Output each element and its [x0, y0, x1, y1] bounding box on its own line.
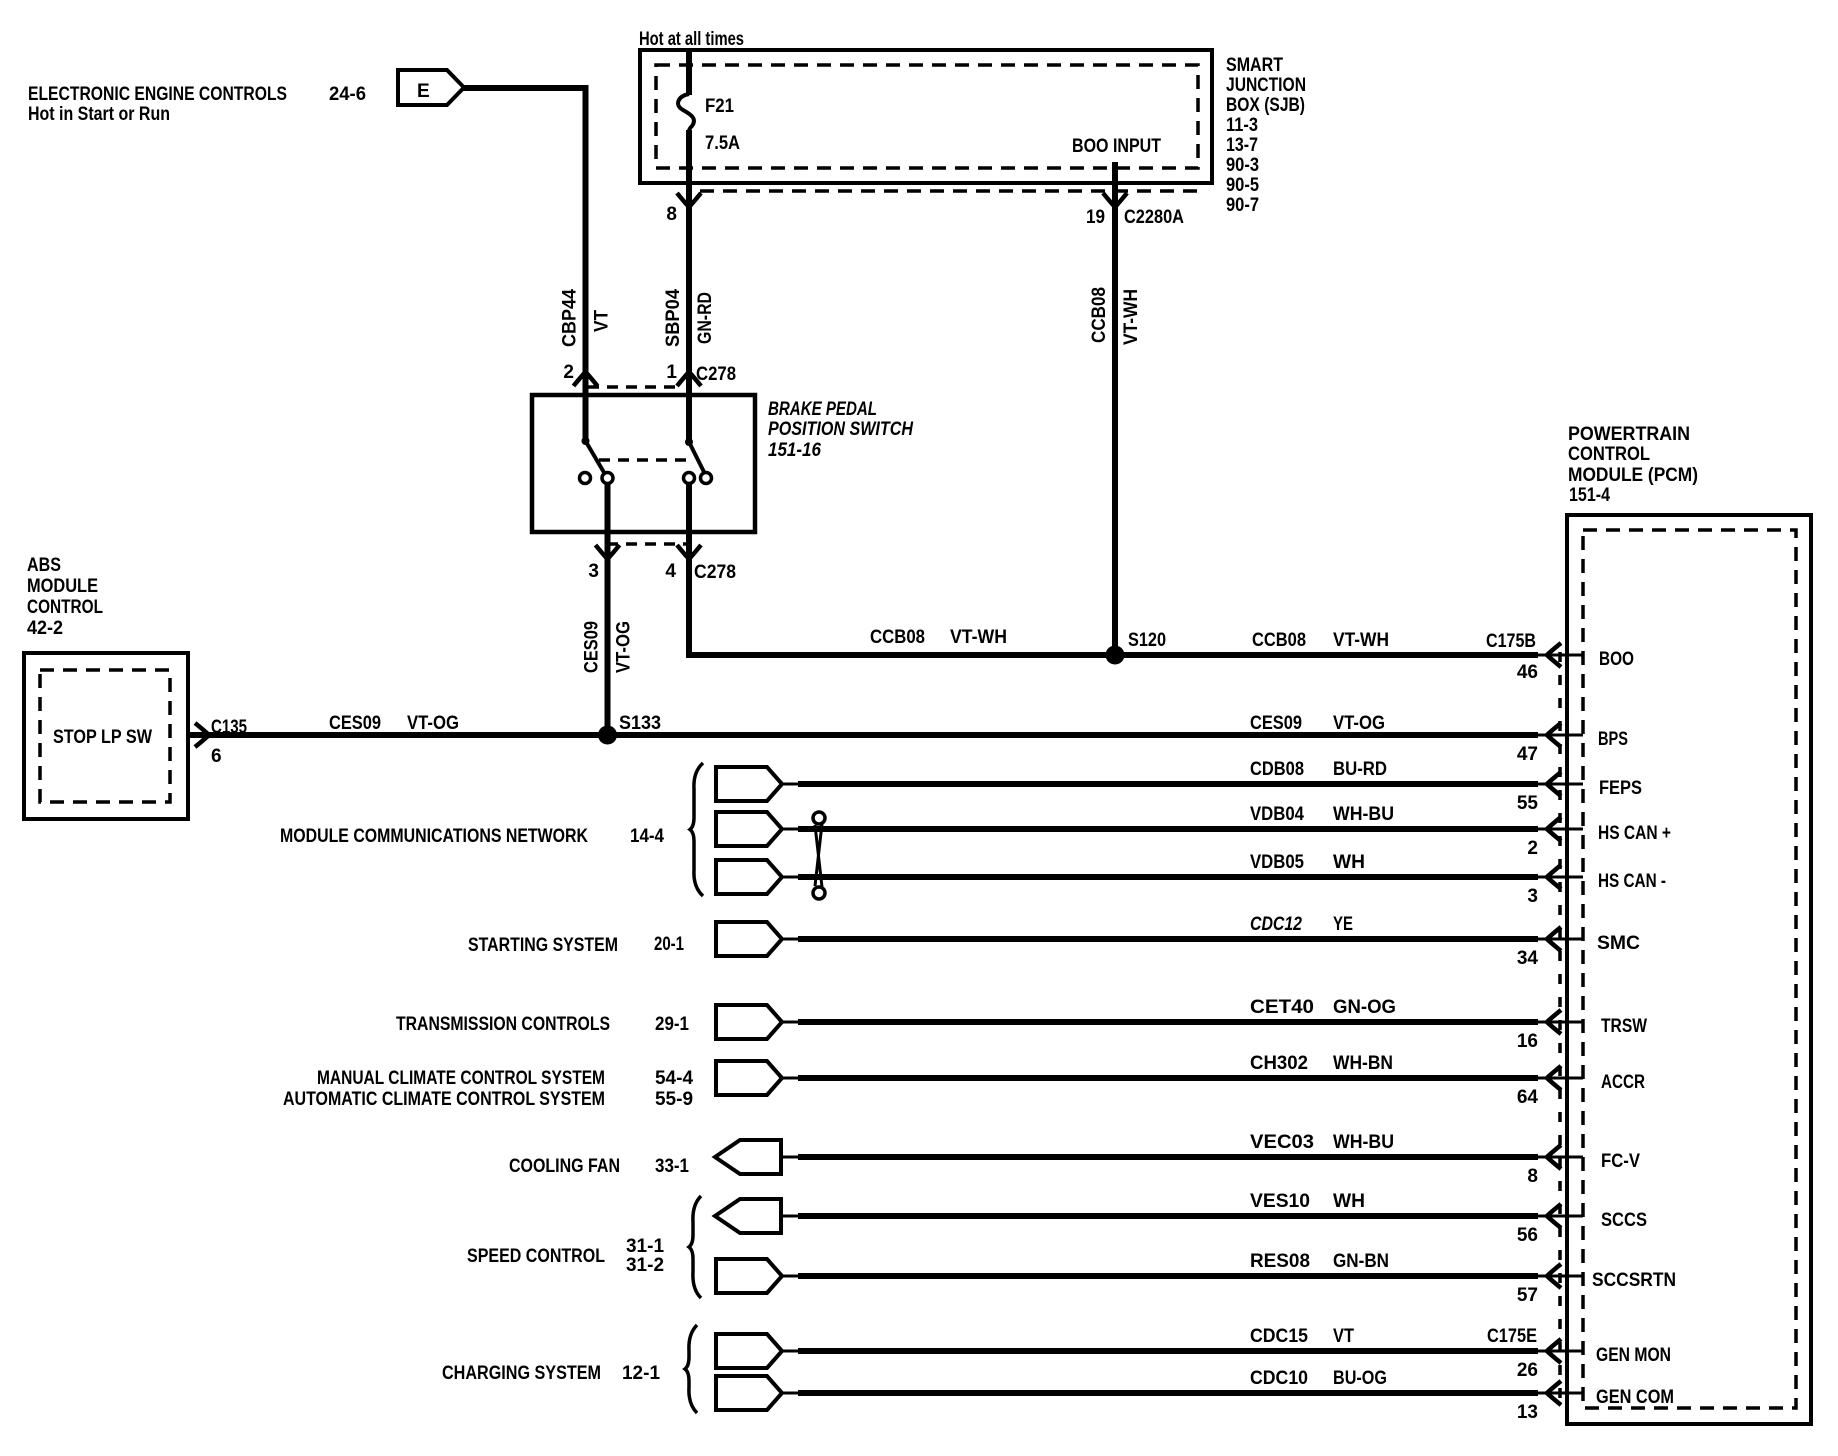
wire RES08 GN-BN [798, 1273, 1538, 1279]
svg-text:26: 26 [1517, 1360, 1538, 1381]
brace for charging system rows [685, 1325, 697, 1413]
svg-text:MODULE COMMUNICATIONS NETWORK: MODULE COMMUNICATIONS NETWORK [280, 826, 588, 847]
connector arrow for GEN MON circuit [716, 1334, 782, 1368]
svg-text:S133: S133 [619, 713, 661, 734]
connector C278 bottom: pin 3 arrow [596, 545, 620, 559]
svg-text:CCB08: CCB08 [1089, 287, 1110, 343]
svg-text:33-1: 33-1 [655, 1156, 689, 1177]
svg-text:56: 56 [1517, 1225, 1538, 1246]
wire CDC15 VT [798, 1348, 1538, 1354]
svg-text:CDC15: CDC15 [1250, 1326, 1308, 1347]
svg-text:SMC: SMC [1597, 933, 1640, 954]
svg-text:COOLING FAN: COOLING FAN [509, 1156, 620, 1177]
svg-text:31-2: 31-2 [626, 1255, 664, 1276]
svg-text:VT-OG: VT-OG [1333, 713, 1385, 734]
svg-text:CH302: CH302 [1250, 1053, 1308, 1074]
svg-text:FEPS: FEPS [1599, 778, 1642, 799]
svg-text:3: 3 [1527, 886, 1538, 907]
svg-text:TRANSMISSION CONTROLS: TRANSMISSION CONTROLS [396, 1014, 610, 1035]
connector E (off-page reference) [398, 70, 464, 105]
svg-text:47: 47 [1517, 744, 1538, 765]
wire CET40 GN-OG [798, 1019, 1538, 1025]
svg-text:42-2: 42-2 [27, 618, 63, 639]
svg-text:CHARGING SYSTEM: CHARGING SYSTEM [442, 1363, 601, 1384]
svg-text:VES10: VES10 [1250, 1191, 1310, 1212]
svg-text:90-5: 90-5 [1226, 175, 1259, 196]
svg-text:8: 8 [666, 204, 677, 225]
svg-text:90-3: 90-3 [1226, 155, 1259, 176]
PCM pin 64 ACCR arrow [1538, 1077, 1583, 1080]
svg-text:CES09: CES09 [329, 713, 381, 734]
svg-text:6: 6 [211, 746, 222, 767]
connector arrow for ACCR circuit [716, 1061, 782, 1095]
svg-text:CCB08: CCB08 [1252, 630, 1306, 651]
PCM pin 26 GEN MON arrow [1538, 1350, 1583, 1353]
PCM pin 47 BPS arrow [1538, 734, 1583, 737]
svg-text:VEC03: VEC03 [1250, 1132, 1314, 1153]
connector arrow for HS CAN + circuit [716, 812, 782, 846]
svg-text:VT: VT [1333, 1326, 1354, 1347]
pin 19 arrow and connector C2280A label [1103, 193, 1127, 207]
wire CES09 VT-OG from stop lamp switch to PCM BPS [188, 732, 1538, 738]
svg-text:64: 64 [1517, 1087, 1539, 1108]
connector arrow for HS CAN - circuit [716, 860, 782, 894]
svg-text:MANUAL CLIMATE CONTROL SYSTEM: MANUAL CLIMATE CONTROL SYSTEM [317, 1068, 605, 1089]
switch mechanical link dashed [599, 458, 686, 462]
svg-text:SCCS: SCCS [1601, 1210, 1647, 1231]
splice S133 [598, 726, 617, 745]
svg-text:STARTING SYSTEM: STARTING SYSTEM [468, 935, 618, 956]
svg-text:E: E [417, 81, 430, 102]
svg-text:C135: C135 [211, 717, 247, 738]
svg-text:BU-RD: BU-RD [1333, 759, 1387, 780]
wire SBP04 GN-RD from SJB pin 8 to switch pin 1 [686, 130, 692, 441]
switch contact circles left [580, 473, 591, 484]
wire CDC12 YE [798, 936, 1538, 942]
svg-text:VDB05: VDB05 [1250, 852, 1304, 873]
svg-text:GEN MON: GEN MON [1596, 1345, 1671, 1366]
svg-text:Hot at all times: Hot at all times [639, 29, 744, 50]
pin 8 arrow at SJB output [677, 193, 701, 207]
svg-text:C175E: C175E [1487, 1326, 1537, 1347]
svg-text:MODULE (PCM): MODULE (PCM) [1568, 465, 1698, 486]
wire CBP44 VT from connector E to brake pedal position switch pin 2 [462, 88, 586, 441]
switch contact circles right [684, 473, 695, 484]
wire CES09 VT-OG from switch pin 3 to splice S133 [605, 483, 611, 735]
svg-text:POWERTRAIN: POWERTRAIN [1568, 424, 1690, 445]
svg-text:CDC10: CDC10 [1250, 1368, 1308, 1389]
svg-text:F21: F21 [705, 96, 734, 117]
svg-text:TRSW: TRSW [1601, 1016, 1647, 1037]
svg-text:GEN COM: GEN COM [1596, 1387, 1674, 1408]
connector arrow for SCCS circuit [715, 1199, 781, 1233]
svg-text:ELECTRONIC ENGINE CONTROLS: ELECTRONIC ENGINE CONTROLS [28, 84, 287, 105]
svg-text:MODULE: MODULE [27, 576, 98, 597]
connector C2280A dashed line below SJB [700, 189, 1206, 193]
svg-text:4: 4 [665, 561, 676, 582]
svg-text:16: 16 [1517, 1031, 1538, 1052]
connector C278 top: pin 1 arrow [677, 372, 701, 386]
svg-text:BOO INPUT: BOO INPUT [1072, 136, 1161, 157]
svg-text:SBP04: SBP04 [663, 289, 684, 347]
svg-text:34: 34 [1517, 948, 1539, 969]
svg-text:CCB08: CCB08 [870, 627, 925, 648]
svg-text:57: 57 [1517, 1285, 1538, 1306]
connector C278 bottom dashed line [607, 542, 688, 546]
svg-text:7.5A: 7.5A [705, 133, 740, 154]
switch blade left (pin 2 to pin 3) [582, 437, 590, 445]
connector arrow for TRSW circuit [716, 1005, 782, 1039]
svg-text:C175B: C175B [1486, 631, 1536, 652]
wire CDC10 BU-OG [798, 1390, 1538, 1396]
PCM pin 13 GEN COM arrow [1538, 1392, 1583, 1395]
svg-text:46: 46 [1517, 662, 1538, 683]
svg-text:BPS: BPS [1598, 729, 1628, 750]
PCM pin 46 BOO arrow [1538, 654, 1583, 657]
svg-text:WH-BN: WH-BN [1333, 1053, 1393, 1074]
svg-text:BU-OG: BU-OG [1333, 1368, 1387, 1389]
svg-text:WH-BU: WH-BU [1333, 804, 1394, 825]
svg-text:ABS: ABS [27, 555, 61, 576]
svg-text:VDB04: VDB04 [1250, 804, 1304, 825]
svg-text:31-1: 31-1 [626, 1236, 664, 1257]
svg-text:STOP LP SW: STOP LP SW [53, 727, 152, 748]
svg-text:GN-OG: GN-OG [1333, 997, 1396, 1018]
PCM pin 16 TRSW arrow [1538, 1021, 1583, 1024]
svg-text:C278: C278 [696, 364, 736, 385]
brace for speed control rows [689, 1196, 701, 1298]
connector C278 bottom: pin 4 arrow [677, 545, 701, 559]
wire VES10 WH [798, 1213, 1538, 1219]
svg-text:VT: VT [592, 310, 613, 332]
svg-text:HS CAN +: HS CAN + [1598, 823, 1671, 844]
connector C278 top dashed line [588, 385, 682, 389]
PCM pin 55 FEPS arrow [1538, 783, 1583, 786]
wire VDB04 WH-BU [798, 826, 1538, 832]
svg-text:WH: WH [1333, 1191, 1365, 1212]
svg-text:FC-V: FC-V [1601, 1151, 1640, 1172]
svg-text:1: 1 [666, 362, 677, 383]
wire VDB05 WH [798, 874, 1538, 880]
svg-text:YE: YE [1333, 914, 1353, 935]
svg-text:VT-WH: VT-WH [950, 627, 1007, 648]
connector C175B/C175E dashed line at PCM [1558, 652, 1562, 1403]
svg-text:C278: C278 [694, 562, 736, 583]
svg-text:90-7: 90-7 [1226, 195, 1259, 216]
svg-text:CBP44: CBP44 [560, 289, 581, 347]
svg-text:POSITION SWITCH: POSITION SWITCH [768, 419, 914, 440]
svg-text:ACCR: ACCR [1601, 1072, 1645, 1093]
svg-text:SMART: SMART [1226, 55, 1283, 76]
svg-text:AUTOMATIC CLIMATE CONTROL SYST: AUTOMATIC CLIMATE CONTROL SYSTEM [283, 1089, 605, 1110]
svg-text:54-4: 54-4 [655, 1068, 693, 1089]
connector arrow for FC-V circuit [715, 1140, 781, 1174]
svg-text:CET40: CET40 [1250, 997, 1314, 1018]
powertrain control module PCM outer box [1567, 515, 1811, 1424]
smart junction box SJB inner dashed box [656, 65, 1198, 168]
twisted pair symbol on HS CAN wires [813, 812, 825, 824]
brace for module communications network rows [690, 763, 703, 896]
connector C135 pin 6 arrow [195, 723, 209, 747]
wire VEC03 WH-BU [798, 1154, 1538, 1160]
switch blade right (pin 1 to pin 4, open) [685, 438, 693, 446]
svg-text:13: 13 [1517, 1402, 1538, 1423]
connector arrow for SCCSRTN circuit [716, 1259, 782, 1293]
fuse F21 7.5A [686, 50, 692, 95]
smart junction box SJB outer box [640, 50, 1212, 183]
svg-text:2: 2 [563, 362, 574, 383]
svg-text:CES09: CES09 [582, 621, 603, 673]
svg-text:BRAKE PEDAL: BRAKE PEDAL [768, 399, 877, 420]
PCM inner dashed box [1583, 530, 1796, 1408]
svg-text:151-16: 151-16 [768, 440, 821, 461]
svg-text:55: 55 [1517, 793, 1539, 814]
svg-text:Hot in Start or Run: Hot in Start or Run [28, 104, 170, 125]
svg-text:WH-BU: WH-BU [1333, 1132, 1394, 1153]
svg-text:CES09: CES09 [1250, 713, 1302, 734]
svg-text:VT-WH: VT-WH [1333, 630, 1389, 651]
svg-text:VT-OG: VT-OG [614, 621, 635, 673]
svg-text:S120: S120 [1128, 630, 1166, 651]
svg-text:13-7: 13-7 [1226, 135, 1258, 156]
PCM pin 8 FC-V arrow [1538, 1156, 1583, 1159]
svg-text:151-4: 151-4 [1569, 485, 1610, 506]
svg-text:2: 2 [1527, 838, 1538, 859]
svg-text:VT-OG: VT-OG [407, 713, 459, 734]
PCM pin 3 HS CAN - arrow [1538, 876, 1583, 879]
connector C278 top: pin 2 arrow [574, 372, 598, 386]
connector arrow for FEPS circuit [716, 767, 782, 801]
svg-text:3: 3 [588, 561, 599, 582]
svg-text:JUNCTION: JUNCTION [1226, 75, 1306, 96]
svg-text:BOX (SJB): BOX (SJB) [1226, 95, 1305, 116]
svg-text:14-4: 14-4 [630, 826, 664, 847]
svg-text:C2280A: C2280A [1124, 207, 1184, 228]
svg-text:GN-RD: GN-RD [695, 292, 716, 344]
svg-text:CDB08: CDB08 [1250, 759, 1304, 780]
svg-text:CDC12: CDC12 [1250, 914, 1302, 935]
svg-text:24-6: 24-6 [329, 84, 366, 105]
svg-text:RES08: RES08 [1250, 1251, 1310, 1272]
svg-text:BOO: BOO [1599, 649, 1634, 670]
connector arrow for SMC circuit [716, 922, 782, 956]
wire CCB08 VT-WH from SJB BOO INPUT pin 19 to splice S120 [1112, 162, 1118, 655]
brake pedal position switch box [532, 395, 755, 532]
splice S120 [1106, 646, 1125, 665]
svg-text:GN-BN: GN-BN [1333, 1251, 1389, 1272]
svg-text:SCCSRTN: SCCSRTN [1592, 1270, 1676, 1291]
wire CDB08 BU-RD [798, 781, 1538, 787]
stop lamp switch dashed box [40, 670, 170, 802]
PCM pin 57 SCCSRTN arrow [1538, 1275, 1583, 1278]
svg-text:55-9: 55-9 [655, 1089, 693, 1110]
svg-text:WH: WH [1333, 852, 1365, 873]
svg-text:19: 19 [1086, 207, 1105, 228]
wire CH302 WH-BN [798, 1075, 1538, 1081]
svg-text:SPEED CONTROL: SPEED CONTROL [467, 1246, 605, 1267]
PCM pin 2 HS CAN + arrow [1538, 828, 1583, 831]
ABS module outer box [24, 653, 188, 819]
svg-text:12-1: 12-1 [622, 1363, 660, 1384]
wire from switch pin 4 down to BOO run [689, 483, 1538, 655]
PCM pin 34 SMC arrow [1538, 938, 1583, 941]
connector arrow for GEN COM circuit [716, 1376, 782, 1410]
svg-text:VT-WH: VT-WH [1121, 289, 1142, 345]
svg-text:CONTROL: CONTROL [1568, 444, 1650, 465]
svg-text:29-1: 29-1 [655, 1014, 689, 1035]
svg-text:CONTROL: CONTROL [27, 597, 103, 618]
svg-text:20-1: 20-1 [654, 934, 684, 955]
svg-text:8: 8 [1527, 1166, 1538, 1187]
svg-text:11-3: 11-3 [1226, 115, 1258, 136]
svg-text:HS CAN -: HS CAN - [1598, 871, 1666, 892]
PCM pin 56 SCCS arrow [1538, 1215, 1583, 1218]
